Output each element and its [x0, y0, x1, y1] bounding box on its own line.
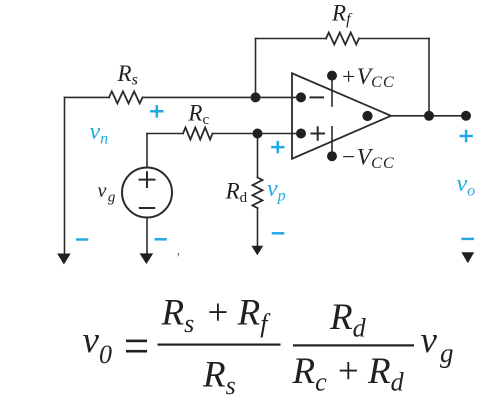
node dot: noninverting input — [296, 129, 306, 139]
wire: Rf top left segment — [256, 38, 327, 40]
wire: op-amp output — [391, 115, 466, 117]
polarity plus: vo (cyan) — [459, 130, 472, 143]
polarity minus: vg branch (cyan) — [155, 238, 167, 241]
wire: Rf loop left vertical — [255, 39, 257, 98]
op-amp inverting input marker — [311, 96, 324, 98]
polarity minus: vo (cyan) — [462, 238, 475, 241]
op-amp noninverting input marker — [312, 127, 325, 140]
resistor Rc zigzag — [183, 128, 213, 140]
svg-text:’: ’ — [176, 251, 181, 266]
node dot: -VCC pin — [327, 151, 337, 161]
ground marker: vo reference triangle — [461, 252, 474, 263]
source vg minus sign — [139, 207, 155, 209]
node dot: output terminal — [461, 111, 471, 121]
polarity plus: vp (cyan) — [271, 141, 284, 154]
op-amp U1 triangle — [292, 73, 391, 158]
svg-text:Rs + Rf: Rs + Rf — [161, 293, 272, 339]
polarity minus: vn (cyan) — [76, 238, 88, 241]
wire: vg top lead — [146, 134, 148, 168]
node dot: Rs/Rf junction — [251, 92, 261, 102]
node dot: Rc/Rd junction — [253, 129, 263, 139]
ground arrow: Rd branch — [251, 246, 263, 256]
polarity plus: vn (cyan) — [150, 105, 163, 118]
formula: fraction bar 1 — [158, 344, 281, 346]
op-amp -VCC lead — [331, 127, 333, 156]
formula: equals sign — [126, 340, 147, 343]
svg-text:Rc + Rd: Rc + Rd — [292, 351, 405, 397]
wire: Rd bottom lead — [257, 208, 259, 246]
source vg plus sign — [139, 171, 156, 188]
wire: input left segment before Rs — [65, 96, 110, 98]
wire: Rf loop right vertical — [428, 39, 430, 116]
source vg circle — [122, 168, 172, 218]
wire: Rs to inverting input — [143, 96, 302, 98]
ground arrow: left branch — [57, 254, 71, 265]
resistor Rf zigzag — [326, 33, 359, 45]
wire: vg bottom lead — [146, 218, 148, 254]
formula: fraction bar 2 — [293, 344, 414, 346]
wire: Rc to noninverting input — [213, 133, 302, 135]
resistor Rs zigzag — [109, 91, 143, 103]
wire: Rd top lead — [257, 134, 259, 178]
node dot: +VCC pin — [327, 71, 337, 81]
node dot: output inside op-amp — [362, 111, 372, 121]
wire: Rc left segment — [147, 133, 183, 135]
node dot: feedback tap on output wire — [424, 111, 434, 121]
wire: left ground branch vertical — [64, 97, 66, 253]
ground arrow: vg branch — [140, 253, 154, 264]
op-amp +VCC lead — [331, 76, 333, 106]
resistor Rd vertical zigzag — [253, 178, 263, 209]
wire: Rf top right segment — [359, 38, 429, 40]
node dot: inverting input — [296, 92, 306, 102]
polarity minus: vp (cyan) — [272, 232, 285, 235]
